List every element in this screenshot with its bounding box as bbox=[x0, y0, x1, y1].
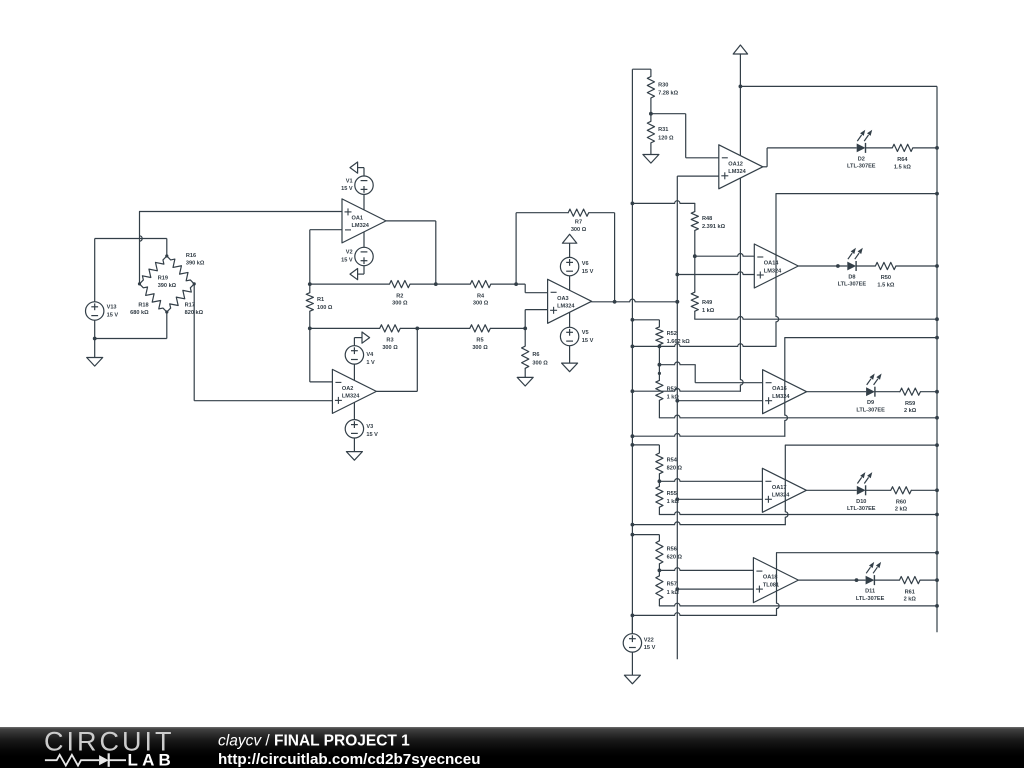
svg-text:R2: R2 bbox=[396, 293, 403, 299]
svg-text:390 kΩ: 390 kΩ bbox=[158, 283, 177, 289]
svg-text:1 kΩ: 1 kΩ bbox=[667, 590, 680, 596]
svg-text:2.391 kΩ: 2.391 kΩ bbox=[702, 224, 726, 230]
svg-text:R57: R57 bbox=[667, 582, 677, 588]
svg-text:OA17: OA17 bbox=[772, 485, 787, 491]
svg-text:D10: D10 bbox=[856, 499, 866, 505]
svg-text:LTL-307EE: LTL-307EE bbox=[856, 407, 885, 413]
svg-text:R17: R17 bbox=[185, 303, 195, 309]
svg-text:1.662 kΩ: 1.662 kΩ bbox=[667, 339, 691, 345]
svg-text:R64: R64 bbox=[897, 157, 908, 163]
svg-text:100 Ω: 100 Ω bbox=[317, 305, 333, 311]
svg-text:LTL-307EE: LTL-307EE bbox=[856, 596, 885, 602]
svg-text:15 V: 15 V bbox=[341, 186, 353, 192]
svg-text:390 kΩ: 390 kΩ bbox=[186, 261, 205, 267]
svg-text:OA1: OA1 bbox=[352, 215, 364, 221]
svg-text:LTL-307EE: LTL-307EE bbox=[847, 164, 876, 170]
svg-text:OA14: OA14 bbox=[764, 261, 780, 267]
svg-text:R4: R4 bbox=[477, 293, 485, 299]
svg-text:1.5 kΩ: 1.5 kΩ bbox=[894, 164, 911, 170]
svg-text:V4: V4 bbox=[366, 352, 374, 358]
svg-text:R61: R61 bbox=[905, 589, 915, 595]
svg-text:2 kΩ: 2 kΩ bbox=[904, 597, 917, 603]
svg-text:V3: V3 bbox=[366, 424, 373, 430]
svg-text:15 V: 15 V bbox=[644, 645, 656, 651]
svg-text:15 V: 15 V bbox=[341, 258, 353, 264]
svg-text:OA18: OA18 bbox=[763, 575, 778, 581]
svg-text:300 Ω: 300 Ω bbox=[472, 345, 488, 351]
svg-text:15 V: 15 V bbox=[582, 269, 594, 275]
svg-text:R55: R55 bbox=[667, 491, 677, 497]
svg-text:300 Ω: 300 Ω bbox=[473, 301, 489, 307]
svg-text:claycv / FINAL PROJECT 1: claycv / FINAL PROJECT 1 bbox=[218, 732, 410, 749]
svg-text:D2: D2 bbox=[858, 156, 865, 162]
svg-text:LTL-307EE: LTL-307EE bbox=[838, 282, 867, 288]
svg-text:R18: R18 bbox=[138, 303, 148, 309]
svg-text:820 Ω: 820 Ω bbox=[667, 466, 683, 472]
svg-text:R52: R52 bbox=[667, 331, 677, 337]
svg-text:7.28 kΩ: 7.28 kΩ bbox=[658, 91, 679, 97]
svg-text:LAB: LAB bbox=[128, 751, 176, 769]
svg-text:1 V: 1 V bbox=[366, 360, 375, 366]
svg-text:15 V: 15 V bbox=[366, 432, 378, 438]
svg-text:R31: R31 bbox=[658, 127, 668, 133]
svg-text:R50: R50 bbox=[881, 275, 891, 281]
svg-text:R54: R54 bbox=[667, 458, 678, 464]
svg-text:http://circuitlab.com/cd2b7sye: http://circuitlab.com/cd2b7syecnceu bbox=[218, 751, 480, 768]
svg-text:300 Ω: 300 Ω bbox=[571, 227, 587, 233]
svg-text:V1: V1 bbox=[346, 178, 353, 184]
svg-text:LM324: LM324 bbox=[342, 394, 360, 400]
svg-text:300 Ω: 300 Ω bbox=[392, 301, 408, 307]
svg-text:620 Ω: 620 Ω bbox=[667, 555, 683, 561]
svg-text:LM324: LM324 bbox=[772, 493, 790, 499]
svg-text:300 Ω: 300 Ω bbox=[382, 345, 398, 351]
svg-text:D9: D9 bbox=[867, 400, 874, 406]
svg-text:R53: R53 bbox=[667, 386, 677, 392]
svg-text:R48: R48 bbox=[702, 216, 712, 222]
svg-text:LM324: LM324 bbox=[557, 304, 575, 310]
svg-text:680 kΩ: 680 kΩ bbox=[130, 310, 149, 316]
svg-text:R6: R6 bbox=[532, 352, 539, 358]
svg-text:2 kΩ: 2 kΩ bbox=[895, 507, 908, 513]
svg-text:V13: V13 bbox=[107, 305, 117, 311]
svg-text:120 Ω: 120 Ω bbox=[658, 135, 674, 141]
svg-text:LM324: LM324 bbox=[352, 223, 370, 229]
svg-text:R49: R49 bbox=[702, 300, 712, 306]
svg-text:1 kΩ: 1 kΩ bbox=[667, 395, 680, 401]
svg-text:R19: R19 bbox=[158, 275, 168, 281]
svg-text:1 kΩ: 1 kΩ bbox=[702, 308, 715, 314]
svg-text:300 Ω: 300 Ω bbox=[532, 360, 548, 366]
svg-text:15 V: 15 V bbox=[107, 312, 119, 318]
svg-text:R60: R60 bbox=[896, 500, 906, 506]
svg-text:R30: R30 bbox=[658, 82, 668, 88]
svg-text:OA3: OA3 bbox=[557, 296, 569, 302]
svg-text:R3: R3 bbox=[386, 338, 393, 344]
svg-text:15 V: 15 V bbox=[582, 338, 594, 344]
svg-text:LM324: LM324 bbox=[764, 268, 782, 274]
svg-text:2 kΩ: 2 kΩ bbox=[904, 408, 917, 414]
svg-text:LM324: LM324 bbox=[772, 394, 790, 400]
svg-text:LTL-307EE: LTL-307EE bbox=[847, 506, 876, 512]
svg-text:LM324: LM324 bbox=[728, 169, 746, 175]
svg-text:R16: R16 bbox=[186, 253, 196, 259]
svg-text:V6: V6 bbox=[582, 261, 589, 267]
svg-text:R1: R1 bbox=[317, 297, 324, 303]
svg-text:R59: R59 bbox=[905, 401, 915, 407]
svg-text:V22: V22 bbox=[644, 637, 654, 643]
svg-text:OA12: OA12 bbox=[728, 161, 743, 167]
svg-text:D11: D11 bbox=[865, 589, 875, 595]
svg-text:V5: V5 bbox=[582, 330, 589, 336]
svg-text:R5: R5 bbox=[476, 338, 483, 344]
svg-text:1.5 kΩ: 1.5 kΩ bbox=[877, 282, 894, 288]
svg-text:D8: D8 bbox=[848, 275, 855, 281]
svg-text:R56: R56 bbox=[667, 546, 677, 552]
svg-text:R7: R7 bbox=[575, 220, 582, 226]
svg-text:OA2: OA2 bbox=[342, 386, 354, 392]
svg-text:1 kΩ: 1 kΩ bbox=[667, 499, 680, 505]
svg-text:V2: V2 bbox=[346, 250, 353, 256]
